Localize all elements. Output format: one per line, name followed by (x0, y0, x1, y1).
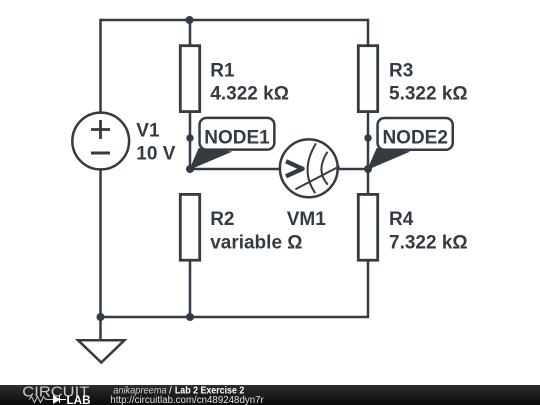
svg-text:R1: R1 (210, 60, 235, 81)
node flag NODE1 (190, 118, 274, 169)
svg-text:R4: R4 (389, 209, 414, 230)
svg-text:7.322 kΩ: 7.322 kΩ (389, 232, 468, 253)
svg-text:NODE2: NODE2 (382, 128, 447, 149)
wire node2 to R4 top (367, 169, 370, 194)
logo resistor zigzag (29, 397, 52, 403)
svg-text:NODE1: NODE1 (204, 128, 270, 149)
logo diode (52, 396, 66, 403)
junction dot top rail (186, 16, 194, 24)
wire R4 bottom stub (367, 260, 370, 318)
resistor R1 body (180, 46, 199, 112)
svg-text:V1: V1 (136, 120, 160, 141)
junction dot ground rail R2 (186, 313, 194, 321)
wire R3 bottom to node2 (367, 112, 370, 169)
junction dot node2 flag attach (364, 134, 371, 141)
resistor R2 body (180, 194, 199, 260)
wire V1 bottom to ground rail (99, 170, 102, 318)
wire R2 bottom stub (189, 260, 192, 317)
wire node1 to voltmeter (190, 168, 281, 171)
wire voltmeter to node2 (337, 168, 368, 171)
junction dot node1 (186, 165, 194, 173)
node junction dots (97, 16, 373, 321)
voltage source V1 (72, 113, 129, 170)
svg-text:variable Ω: variable Ω (210, 232, 302, 253)
svg-text:VM1: VM1 (287, 209, 327, 230)
junction dot node2 (364, 165, 372, 173)
svg-text:R3: R3 (389, 60, 413, 81)
resistor R4 body (358, 194, 377, 260)
wire R3 top stub (367, 19, 370, 46)
wire left vertical to V1 top (99, 19, 102, 113)
wire bottom horizontal (101, 316, 369, 319)
wire R1 bottom to node1 (189, 112, 192, 169)
svg-text:10 V: 10 V (136, 143, 175, 164)
svg-text:4.322 kΩ: 4.322 kΩ (210, 84, 289, 105)
svg-text:5.322 kΩ: 5.322 kΩ (389, 84, 468, 105)
footer bar (0, 384, 540, 405)
junction dot node1 flag attach (186, 134, 193, 141)
node flag NODE2 (368, 118, 453, 169)
wire top horizontal (101, 19, 369, 22)
svg-text:R2: R2 (210, 209, 234, 230)
svg-text:http://circuitlab.com/cn489248: http://circuitlab.com/cn489248dyn7r (110, 395, 264, 405)
svg-text:LAB: LAB (67, 395, 91, 405)
wire R1 top stub (189, 20, 192, 46)
ground (78, 340, 125, 362)
junction dot ground rail left (97, 313, 105, 321)
resistor R3 body (358, 46, 377, 112)
voltmeter VM1 (280, 139, 340, 197)
wire ground stub (99, 317, 102, 340)
